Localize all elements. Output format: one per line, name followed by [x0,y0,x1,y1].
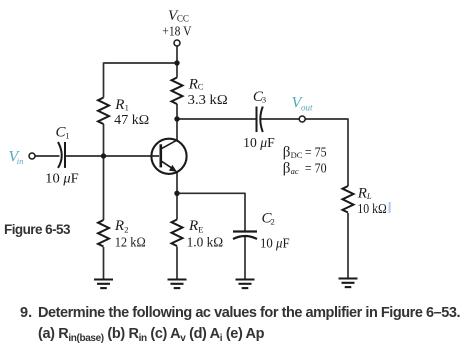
resistor R2 12k zigzag [98,220,109,247]
svg-text:10 kΩ: 10 kΩ [357,201,386,216]
ground below RL [339,279,358,288]
svg-text:3.3 kΩ: 3.3 kΩ [188,92,228,107]
wire emitter junction to C2 corner [177,192,245,194]
svg-text:R: R [357,185,367,201]
transistor Q1 collector line [162,140,178,149]
capacitor C2 straight plate [233,230,257,232]
wire Vout terminal to RL corner [305,118,348,120]
svg-text:R: R [188,218,198,234]
svg-text:10 μF: 10 μF [45,171,79,186]
svg-text:β: β [283,160,291,176]
svg-text:1: 1 [65,130,69,140]
svg-text:10 μF: 10 μF [260,236,290,251]
Vout terminal circle [299,116,305,122]
svg-text:2: 2 [124,224,128,234]
capacitor C3 curved plate [260,107,263,133]
wire RE top lead [176,193,178,219]
resistor RL 10k zigzag [343,186,354,213]
svg-text:C: C [198,82,204,92]
wire corner down to C2 top plate [244,193,246,231]
Vin terminal circle [29,153,35,159]
svg-text:10 μF: 10 μF [243,135,275,150]
label Figure 6-53 [4,222,70,237]
text cursor artifact [389,202,391,213]
node junction dot VCC rail top [174,60,179,65]
svg-text:47 kΩ: 47 kΩ [114,112,149,127]
wire corner down to R1 top [103,62,105,97]
wire C3 to Vout terminal [261,118,300,120]
svg-text:CC: CC [177,14,189,24]
problem text line 1 [20,305,32,321]
svg-text:ac: ac [291,166,299,176]
wire RC bottom to collector junction [176,104,178,119]
wire R2 bottom to ground [103,247,105,280]
svg-text:R: R [114,218,124,234]
wire R2 top lead [103,156,105,220]
svg-text:+18 V: +18 V [162,23,191,38]
svg-text:1: 1 [125,102,129,112]
wire top junction to R1 corner [104,62,178,64]
capacitor C3 straight plate [256,107,258,133]
node junction dot collector [174,116,179,121]
svg-text:R: R [188,77,198,93]
capacitor C1 curved plate [58,142,62,168]
svg-text:R: R [114,97,124,113]
svg-text:= 75: = 75 [305,145,327,160]
transistor Q1 circle [151,139,186,174]
ground below R2 [94,280,113,289]
wire collector junction to collector [176,119,178,141]
transistor Q1 base bar [160,144,163,167]
svg-text:12 kΩ: 12 kΩ [115,234,146,249]
svg-text:E: E [198,224,203,234]
svg-text:DC: DC [291,150,303,160]
svg-text:1.0 kΩ: 1.0 kΩ [187,234,224,249]
ground below C2 [236,280,255,289]
wire collector junction to C3 [177,118,257,120]
wire Vin terminal to C1 [36,155,60,157]
wire corner down to RL top [347,118,349,186]
svg-text:β: β [283,145,291,161]
wire C1 to base junction [65,155,104,157]
resistor RE 1.0k zigzag [172,220,183,247]
wire RE bottom to ground [176,247,178,280]
wire base junction to transistor base [104,155,160,157]
node junction dot emitter [174,191,179,196]
wire C2 bottom plate to ground [244,236,246,279]
wire RL bottom to ground [347,213,349,279]
capacitor C1 straight plate [64,142,66,168]
svg-text:out: out [301,102,313,112]
wire VCC terminal to top junction [176,47,178,64]
svg-text:2: 2 [271,216,275,226]
svg-text:L: L [366,191,372,201]
svg-text:3: 3 [262,95,266,105]
resistor R1 47k zigzag [98,98,109,125]
wire emitter to emitter junction [176,172,178,194]
ground below RE [168,280,187,289]
wire RC top lead [176,63,178,78]
VCC terminal circle [174,40,180,46]
resistor RC 3.3k zigzag [172,78,183,105]
transistor Q1 emitter line with arrow [162,161,175,170]
wire R1 bottom to base junction [103,124,105,156]
capacitor C2 curved plate [233,236,257,239]
svg-text:= 70: = 70 [305,160,327,175]
problem text line 2 [38,326,264,344]
svg-text:in: in [17,156,24,166]
node junction dot base [101,153,106,158]
